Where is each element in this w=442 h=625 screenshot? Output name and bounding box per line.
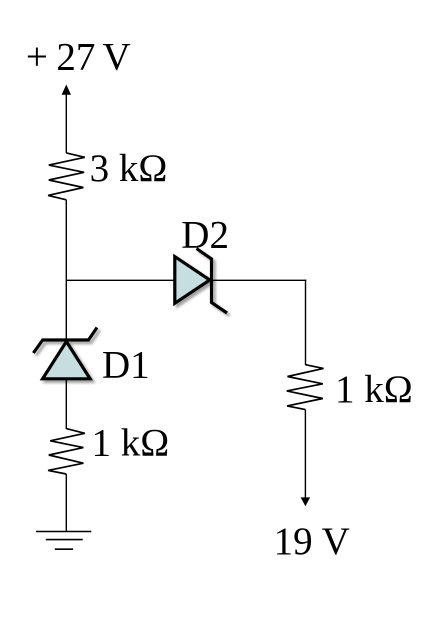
svg-text:V: V: [103, 36, 131, 79]
svg-text:27: 27: [56, 36, 95, 79]
svg-text:1 kΩ: 1 kΩ: [92, 422, 170, 465]
diode D2 zener: [175, 249, 227, 314]
output arrow down to 19 V: [301, 410, 310, 507]
wire left rail from R1 to node A: [65, 200, 67, 280]
supply label + 27 V: [26, 36, 131, 79]
resistor R2 1 kOhm zigzag right: [287, 365, 324, 410]
wire R3 to ground: [65, 474, 67, 532]
svg-text:3 kΩ: 3 kΩ: [90, 147, 168, 190]
wire right rail down to R2: [305, 280, 307, 365]
svg-text:D2: D2: [181, 214, 229, 257]
wire node A to D2 anode: [66, 279, 177, 281]
supply arrow up: [62, 85, 71, 154]
wire D1 anode to R3: [65, 379, 67, 429]
resistor R1 3 kOhm zigzag: [48, 153, 85, 200]
svg-text:D1: D1: [102, 344, 150, 387]
diode D1 zener: [33, 328, 97, 379]
wire D2 cathode to right rail: [212, 279, 307, 281]
node A junction wire down to D1: [65, 280, 67, 341]
svg-text:+: +: [26, 36, 48, 79]
svg-text:1 kΩ: 1 kΩ: [335, 368, 413, 411]
svg-text:19 V: 19 V: [274, 520, 350, 563]
ground: [36, 532, 91, 550]
resistor R3 1 kOhm zigzag left: [48, 429, 85, 474]
